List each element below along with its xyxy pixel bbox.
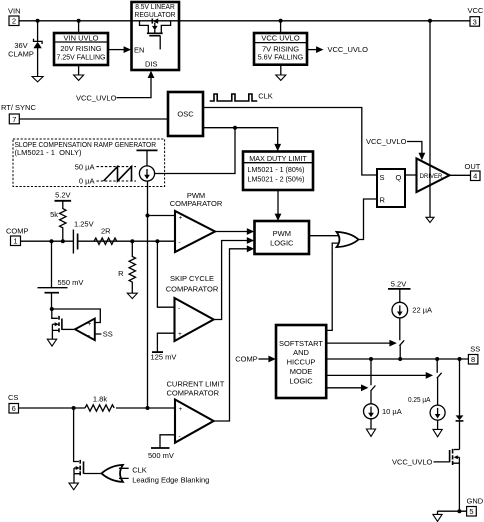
pin OUT 4 (465, 162, 481, 181)
wire zener stem (37, 21, 39, 77)
pin RT/SYNC 7 (1, 103, 36, 124)
node rail-zener junction (36, 19, 40, 23)
label 36V CLAMP (8, 41, 34, 58)
svg-text:CLK: CLK (258, 92, 273, 101)
driver amplifier (417, 159, 450, 193)
svg-text:Leading Edge Blanking: Leading Edge Blanking (132, 475, 209, 484)
svg-text:3: 3 (473, 17, 477, 26)
svg-text:-: - (178, 305, 180, 312)
node cs-ramp junction (146, 406, 150, 410)
svg-text:SKIP CYCLE: SKIP CYCLE (170, 274, 214, 283)
svg-text:GND: GND (467, 497, 484, 506)
svg-text:SOFTSTART: SOFTSTART (279, 339, 323, 348)
svg-text:CLAMP: CLAMP (8, 49, 34, 58)
wire climit minus to 500mV (160, 435, 175, 448)
or-gate leading edge blanking (left pointing) (102, 465, 123, 482)
wire SS rail to 10uA switch (370, 359, 372, 385)
svg-text:VIN: VIN (8, 7, 21, 16)
wire VCC_UVLO output arrow (307, 46, 324, 53)
svg-text:1.25V: 1.25V (74, 219, 94, 228)
block SOFTSTART AND HICCUP MODE LOGIC (276, 325, 326, 398)
svg-text:+: + (179, 406, 183, 413)
svg-text:+: + (179, 215, 183, 222)
ground below R (127, 293, 137, 298)
wire VCC_UVLO to DIS arrow (117, 71, 155, 98)
svg-text:5k: 5k (50, 210, 58, 219)
wire COMP line to comparator minus (21, 240, 176, 242)
node rail-driver junction (428, 19, 432, 23)
op-amp PWM comparator (175, 211, 215, 252)
wire CS line (19, 407, 176, 409)
block PWM LOGIC (255, 221, 310, 254)
wire SS rail to diode (459, 359, 461, 416)
node gnd junction (457, 509, 461, 513)
wire SS comp output to gate (62, 328, 75, 330)
svg-text:S: S (380, 173, 385, 182)
svg-text:5.6V FALLING: 5.6V FALLING (258, 52, 304, 61)
svg-text:RT/ SYNC: RT/ SYNC (1, 103, 36, 112)
transistor Q softstart clamp NMOS (52, 309, 62, 339)
svg-text:REGULATOR: REGULATOR (135, 10, 177, 19)
wire softstart ctrl1 arrow to 22uA switch (326, 340, 397, 347)
wire junction down to ramp source (155, 128, 235, 174)
op-amp current limit comparator (175, 400, 214, 443)
block VIN UVLO (54, 33, 108, 65)
svg-text:MODE: MODE (290, 367, 313, 376)
svg-text:5.2V: 5.2V (55, 191, 70, 200)
node rail-vccuvlo junction (279, 19, 283, 23)
wire 22uA to switch (399, 318, 401, 340)
svg-text:PWM: PWM (273, 229, 291, 238)
svg-text:OSC: OSC (177, 110, 194, 119)
wire EN enable arrow (108, 46, 131, 53)
node comp-skip junction (155, 239, 159, 243)
op-amp skip cycle comparator (175, 298, 214, 341)
svg-text:1.8k: 1.8k (93, 395, 107, 404)
svg-text:+: + (88, 321, 92, 328)
block 8.5V linear regulator (132, 2, 180, 70)
waveform CLK pulses (210, 94, 258, 101)
ground below clamp NMOS (47, 339, 56, 346)
wire node to SS comparator plus (52, 309, 101, 323)
wire RT/SYNC to OSC (19, 118, 168, 120)
current source 10uA (364, 404, 379, 419)
wire VCC through driver to ground (429, 21, 431, 217)
ground below zener (32, 77, 43, 82)
latch SR (377, 169, 405, 207)
svg-text:DRIVER: DRIVER (420, 174, 443, 180)
svg-text:VCC UVLO: VCC UVLO (261, 34, 300, 43)
pin SS 8 (468, 344, 480, 364)
svg-text:7: 7 (12, 115, 16, 124)
svg-text:VCC_UVLO: VCC_UVLO (392, 457, 433, 466)
svg-text:-: - (88, 332, 90, 339)
node ss-0.25ua junction (435, 357, 439, 361)
ground at GND rail (433, 514, 442, 521)
svg-text:SS: SS (470, 344, 480, 353)
wire 5.2V to 22uA source (399, 289, 401, 303)
or-gate U1 (337, 232, 359, 247)
switch 0.25uA (437, 373, 442, 379)
wire PWM comp output arrow (215, 228, 254, 235)
svg-text:COMPARATOR: COMPARATOR (167, 389, 220, 398)
wire VCC_UVLO to driver arrow (407, 142, 425, 161)
battery 550mV (38, 288, 68, 293)
svg-text:CLK: CLK (132, 465, 147, 474)
svg-text:OUT: OUT (465, 162, 481, 171)
op-amp SS comparator (left pointing) (75, 319, 95, 341)
wire switch to 10uA source (370, 391, 372, 404)
label PWM COMPARATOR (170, 191, 223, 208)
wire 0.25uA to ground (437, 420, 439, 429)
zener diode 36V clamp (33, 39, 42, 49)
wire latch Q to driver (405, 174, 417, 176)
supply bar 5.2V right (388, 288, 411, 290)
block OSC (168, 92, 203, 136)
switch 22uA (399, 340, 404, 346)
wire skip output to PWM logic arrow (214, 237, 255, 319)
node rail-vinuvlo junction (77, 19, 81, 23)
svg-text:HICCUP: HICCUP (287, 358, 316, 367)
svg-text:R: R (380, 196, 386, 205)
node ss-diode junction (458, 357, 462, 361)
current source ramp 0-50uA (139, 166, 154, 181)
svg-text:6: 6 (12, 404, 16, 413)
wire PWM logic output to OR gate (309, 235, 342, 237)
wire VIN/VCC top rail (19, 20, 470, 22)
svg-text:5: 5 (469, 507, 473, 516)
svg-text:7.25V FALLING: 7.25V FALLING (57, 52, 106, 61)
pin GND 5 (467, 497, 484, 517)
wire SS rail to 0.25uA switch (436, 359, 438, 373)
resistor 2R (94, 227, 117, 245)
svg-text:CS: CS (8, 393, 18, 402)
pin CS 6 (8, 393, 19, 413)
block slope compensation ramp generator (dashed) (13, 139, 165, 187)
svg-text:LM5021 - 1 (80%): LM5021 - 1 (80%) (248, 165, 305, 174)
wire GND rail (438, 510, 467, 512)
current source 0.25uA (430, 405, 445, 420)
reference bar 500mV (151, 447, 170, 449)
svg-text:2R: 2R (101, 227, 111, 236)
svg-text:50 µA: 50 µA (75, 162, 95, 171)
arrow into MAX DUTY LIMIT (274, 144, 281, 151)
svg-text:VCC: VCC (468, 6, 484, 15)
node comp-5k junction (61, 239, 65, 243)
node ss-22ua junction (398, 357, 402, 361)
label CURRENT LIMIT COMPARATOR (167, 380, 225, 398)
wire softstart ctrl4 arrow to 10uA switch (326, 384, 368, 391)
svg-text:4: 4 (473, 172, 477, 181)
wire skip plus input (157, 333, 174, 352)
svg-text:22 µA: 22 µA (412, 305, 432, 314)
wire dashed 0uA level (97, 180, 137, 182)
svg-text:Q: Q (396, 173, 402, 182)
diode in regulator (152, 18, 158, 23)
svg-text:COMPARATOR: COMPARATOR (170, 199, 223, 208)
svg-text:DIS: DIS (145, 60, 158, 69)
ground below VIN UVLO (74, 75, 84, 80)
diode SS discharge (456, 415, 464, 421)
wire rail to VIN UVLO (78, 21, 80, 33)
pin COMP 1 (6, 227, 29, 246)
waveform sawtooth (104, 167, 132, 181)
svg-text:10 µA: 10 µA (382, 407, 402, 416)
transistor SS discharge NMOS (450, 449, 460, 511)
supply bar ramp source (137, 149, 158, 151)
pin VCC 3 (468, 6, 484, 26)
wire hiccup to OR gate (326, 243, 342, 330)
label SKIP CYCLE COMPARATOR (166, 274, 219, 294)
svg-text:550 mV: 550 mV (58, 278, 84, 287)
svg-text:COMP: COMP (235, 354, 258, 363)
wire OSC ramp output to max duty limit (203, 128, 278, 145)
svg-text:500 mV: 500 mV (148, 451, 174, 460)
node ss-10ua junction (369, 357, 373, 361)
wire VIN UVLO to ground (78, 65, 80, 75)
ground below driver (426, 217, 434, 222)
ground below 0.25uA (433, 429, 442, 436)
wire blanking inputs (119, 468, 129, 478)
svg-text:CURRENT LIMIT: CURRENT LIMIT (167, 380, 225, 389)
wire ramp source down to PWM+ node (147, 181, 149, 408)
svg-text:EN: EN (134, 46, 144, 55)
wire gnd rail elbow (437, 511, 439, 514)
node osc-ramp junction (233, 126, 237, 130)
transistor pass PMOS in regulator (140, 21, 171, 50)
svg-text:125 mV: 125 mV (151, 353, 177, 362)
svg-text:VIN UVLO: VIN UVLO (63, 34, 98, 43)
block VCC UVLO (254, 33, 307, 65)
svg-text:5.2V: 5.2V (391, 279, 406, 288)
wire dashed 50uA level (97, 166, 137, 168)
current source 22uA (392, 302, 408, 318)
resistor R to ground (118, 241, 135, 293)
block MAX DUTY LIMIT (243, 152, 313, 191)
svg-text:LOGIC: LOGIC (289, 377, 313, 386)
wire OR output to latch R (359, 199, 378, 240)
battery 1.25V offset (73, 230, 77, 254)
wire switch to 0.25uA source (437, 378, 439, 405)
svg-text:R: R (118, 269, 124, 278)
svg-text:COMPARATOR: COMPARATOR (166, 284, 219, 293)
svg-text:(LM5021 - 1 ONLY): (LM5021 - 1 ONLY) (15, 148, 82, 157)
svg-text:VCC_UVLO: VCC_UVLO (328, 45, 369, 54)
wire skip minus input (157, 241, 174, 307)
svg-text:LM5021 - 2 (50%): LM5021 - 2 (50%) (248, 175, 305, 184)
node comp-R junction (130, 239, 134, 243)
svg-text:0.25 µA: 0.25 µA (408, 395, 431, 404)
wire COMP arrow into softstart (259, 356, 276, 363)
svg-text:AND: AND (293, 348, 309, 357)
wire driver to OUT (450, 174, 471, 176)
svg-text:VCC_UVLO: VCC_UVLO (366, 137, 407, 146)
wire climit output to PWM logic arrow (214, 245, 255, 421)
svg-text:MAX DUTY LIMIT: MAX DUTY LIMIT (249, 154, 307, 163)
svg-text:VCC_UVLO: VCC_UVLO (76, 93, 117, 102)
wire SS rail (326, 358, 468, 360)
wire blanking gate (84, 473, 104, 475)
svg-text:1: 1 (13, 237, 17, 246)
pin VIN 2 (8, 7, 21, 26)
wire switch to SS rail (399, 345, 401, 359)
wire CLK line OSC to latch S (203, 108, 377, 176)
node cs-blank junction (72, 406, 76, 410)
wire VCC UVLO to ground (280, 65, 282, 75)
wire rail to VCC UVLO (280, 21, 282, 33)
svg-text:COMP: COMP (6, 227, 29, 236)
ground below 10uA (366, 429, 375, 436)
wire pwm+ input (148, 215, 176, 217)
transistor leading edge blanking NMOS (74, 408, 84, 483)
wire MDL to PWM logic arrow (275, 190, 282, 221)
svg-text:+: + (178, 331, 182, 338)
switch 10uA (371, 386, 376, 392)
resistor 1.8k (85, 395, 114, 412)
svg-text:-: - (179, 240, 181, 247)
wire 10uA to ground (370, 419, 372, 429)
wire SS stub (95, 333, 102, 335)
wire 550mV to node (51, 293, 53, 309)
resistor 5k (50, 201, 66, 241)
wire VCC_UVLO to gate (434, 461, 450, 463)
svg-text:SS: SS (103, 329, 113, 338)
svg-text:0 µA: 0 µA (79, 176, 95, 185)
ground below blanking NMOS (69, 483, 78, 490)
node pwm+ junction (146, 214, 150, 218)
reference bar 125mV (152, 351, 163, 353)
wire softstart ctrl3 arrow to 0.25uA switch (326, 372, 433, 379)
node comp-550mv junction (50, 239, 54, 243)
svg-text:2: 2 (12, 17, 16, 26)
node 550mv-ss junction (50, 307, 54, 311)
wire diode to NMOS (459, 421, 461, 450)
wire rail inside regulator (132, 20, 180, 22)
wire 550mV branch (51, 241, 53, 287)
svg-text:8: 8 (471, 355, 475, 364)
svg-text:LOGIC: LOGIC (270, 239, 294, 248)
wire bar to current source (146, 150, 148, 166)
svg-text:-: - (179, 433, 181, 440)
supply bar 5.2V left (55, 200, 72, 202)
ground below VCC UVLO (276, 75, 286, 80)
